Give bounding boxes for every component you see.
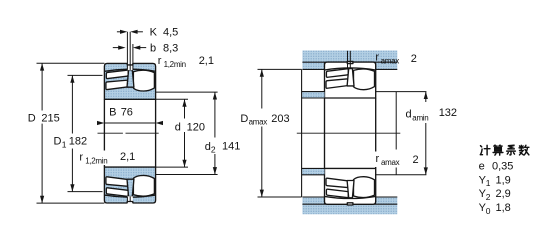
svg-text:d: d xyxy=(175,121,181,133)
centerline right view xyxy=(297,132,401,134)
svg-text:2,1: 2,1 xyxy=(120,151,135,163)
guide ring xyxy=(127,70,134,87)
计 xyxy=(480,145,490,155)
svg-text:r: r xyxy=(158,55,162,67)
dimension D1 182 xyxy=(68,75,103,191)
bearing lower half-section (mirror) xyxy=(104,167,155,204)
svg-text:D: D xyxy=(54,136,62,148)
dimension B 76 xyxy=(104,122,155,124)
svg-text:d: d xyxy=(406,108,412,120)
svg-text:D: D xyxy=(240,113,248,125)
svg-text:amax: amax xyxy=(381,158,400,167)
svg-text:amax: amax xyxy=(249,118,268,127)
groove step profile xyxy=(127,63,133,65)
svg-text:215: 215 xyxy=(41,113,59,125)
roller row left (sectioned roller) xyxy=(106,70,128,78)
abutment sleeve right of bearing xyxy=(395,92,397,175)
svg-text:1: 1 xyxy=(486,178,491,188)
svg-text:120: 120 xyxy=(187,121,205,133)
dimension K 4,5 xyxy=(117,31,143,33)
bearing side faces (right view) xyxy=(325,98,376,168)
lubrication groove/hole W33 xyxy=(127,63,133,71)
svg-text:B: B xyxy=(109,107,116,119)
shaft cut edge left xyxy=(301,69,303,197)
svg-text:amin: amin xyxy=(412,113,428,122)
svg-text:0: 0 xyxy=(486,206,491,216)
svg-text:141: 141 xyxy=(222,141,240,153)
svg-text:76: 76 xyxy=(121,107,133,119)
系 xyxy=(507,145,516,155)
svg-text:2,1: 2,1 xyxy=(199,55,214,67)
shaft shoulder (left, top) xyxy=(302,92,325,98)
svg-text:1,9: 1,9 xyxy=(496,174,511,186)
svg-text:1,2min: 1,2min xyxy=(85,157,107,166)
svg-text:r: r xyxy=(376,153,380,165)
groove notch right view xyxy=(347,61,353,63)
outer+inner ring section fill xyxy=(104,63,155,99)
housing section bottom xyxy=(302,197,397,214)
svg-text:132: 132 xyxy=(439,107,457,119)
roller row left (roller behind) xyxy=(106,80,128,89)
数 xyxy=(519,145,529,155)
svg-text:182: 182 xyxy=(69,135,87,147)
svg-text:K: K xyxy=(150,27,158,39)
svg-text:e: e xyxy=(479,161,485,173)
shaft seat surface lines xyxy=(302,98,325,168)
lubrication hole lines (right view, through housing) xyxy=(348,51,351,69)
svg-text:0,35: 0,35 xyxy=(492,161,513,173)
算 xyxy=(493,145,503,155)
svg-text:2: 2 xyxy=(413,154,419,166)
bearing outline lower half (right view, mirror) xyxy=(325,168,376,205)
dimension damin 132 xyxy=(376,92,427,175)
svg-text:2: 2 xyxy=(211,145,216,155)
lubrication hole lines through outer ring xyxy=(127,32,132,202)
dimension d 120 xyxy=(156,99,188,167)
svg-text:203: 203 xyxy=(271,113,289,125)
dimension d2 141 xyxy=(156,92,218,174)
roller row right xyxy=(133,70,154,91)
svg-text:8,3: 8,3 xyxy=(163,43,178,55)
shaft shoulder (left, bottom) xyxy=(302,168,325,174)
spherical outer raceway xyxy=(104,69,155,71)
bearing outline upper half (right view) xyxy=(325,61,376,98)
svg-text:1: 1 xyxy=(62,139,67,149)
svg-text:2: 2 xyxy=(486,192,491,202)
bearing side faces connecting halves xyxy=(104,99,155,167)
centerline left view xyxy=(98,132,159,134)
dimension b 8,3 xyxy=(113,47,146,49)
svg-text:r: r xyxy=(375,51,379,63)
svg-text:2: 2 xyxy=(411,53,417,65)
svg-text:2,9: 2,9 xyxy=(496,188,511,200)
svg-text:b: b xyxy=(150,43,156,55)
dimension D 215 xyxy=(37,63,105,203)
housing section top xyxy=(302,51,397,70)
svg-text:amax: amax xyxy=(381,56,400,65)
bearing upper half-section (outer ring, rollers, inner ring) xyxy=(104,63,155,100)
svg-text:1,2min: 1,2min xyxy=(164,60,186,69)
svg-text:r: r xyxy=(79,152,83,164)
svg-text:D: D xyxy=(28,113,36,125)
label r amax 2 (bottom) xyxy=(375,152,420,168)
header 计算系数 (drawn strokes) xyxy=(480,145,529,155)
dimension Damax 203 xyxy=(258,69,302,197)
svg-text:4,5: 4,5 xyxy=(163,27,178,39)
label r1,2min 2,1 (left, above lower section) xyxy=(79,151,115,166)
svg-text:1,8: 1,8 xyxy=(496,202,511,214)
